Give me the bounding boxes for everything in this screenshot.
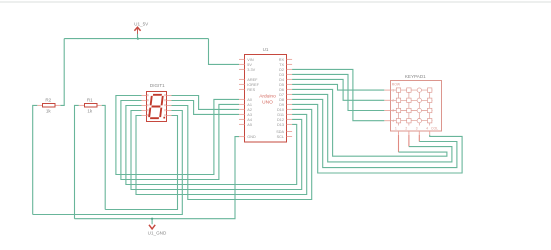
- wire DIGIT1 RC to D10: [172, 106, 312, 200]
- svg-text:A1: A1: [247, 103, 252, 107]
- wire COL2 to D7: [292, 94, 452, 161]
- keypad KEYPAD1: [384, 81, 441, 135]
- wire R1 right down: [102, 105, 106, 209]
- wire COL3 to D8: [292, 99, 457, 167]
- wire DIGIT1 L3 to D13: [126, 106, 297, 185]
- wire DIGIT1 RB to A3: [172, 101, 240, 115]
- resistor R1: [79, 104, 102, 108]
- wire 5V rail: [64, 38, 208, 40]
- wire D3 to keypad ROW3: [292, 74, 384, 110]
- wire COL4 to D9: [292, 104, 462, 173]
- ground symbol U1_GND: [149, 225, 155, 229]
- wire D5 to keypad ROW1: [292, 84, 384, 90]
- svg-text:1: 1: [395, 126, 397, 130]
- svg-text:U1_GND: U1_GND: [148, 231, 167, 236]
- svg-text:UNO: UNO: [262, 99, 273, 105]
- svg-text:D5: D5: [279, 83, 284, 87]
- svg-text:Arduino: Arduino: [259, 94, 276, 100]
- svg-text:D9: D9: [279, 103, 284, 107]
- svg-text:R1: R1: [87, 97, 93, 102]
- svg-text:U1_5V: U1_5V: [134, 22, 149, 27]
- svg-text:COL: COL: [431, 127, 438, 131]
- svg-text:GND: GND: [247, 135, 256, 139]
- svg-text:D13: D13: [277, 123, 284, 127]
- svg-text:3: 3: [416, 126, 418, 130]
- wire GND symbol lead: [151, 219, 153, 225]
- svg-text:D7: D7: [279, 93, 284, 97]
- svg-text:RES: RES: [247, 88, 255, 92]
- wire DIGIT1 RE to R1 rail: [105, 116, 177, 210]
- wire R2 left down: [33, 105, 38, 214]
- wire 5V arrow drop: [137, 34, 139, 39]
- svg-text:A3: A3: [247, 113, 252, 117]
- wire D4 to keypad ROW2: [292, 79, 384, 100]
- wire DIGIT1 L1 to A0: [116, 96, 239, 175]
- svg-text:D10: D10: [277, 108, 284, 112]
- svg-text:4: 4: [426, 126, 428, 130]
- resistor R2: [37, 104, 60, 108]
- svg-text:D8: D8: [279, 98, 284, 102]
- supply symbol U1_5V: [134, 27, 140, 34]
- svg-text:ROW: ROW: [392, 83, 401, 87]
- svg-text:D4: D4: [279, 78, 284, 82]
- svg-text:SDA: SDA: [276, 130, 284, 134]
- svg-text:DIGIT1: DIGIT1: [150, 83, 165, 88]
- wire DIGIT1 RA to A2: [172, 96, 240, 110]
- svg-text:IOREF: IOREF: [247, 83, 259, 87]
- wire DIGIT1 L4 to D12: [131, 111, 302, 190]
- svg-text:R2: R2: [45, 97, 51, 102]
- 7-segment display DIGIT1: [142, 92, 172, 122]
- wire keypad COL3 red drop: [418, 135, 420, 142]
- svg-text:A5: A5: [247, 123, 252, 127]
- wire keypad COL1 red drop: [398, 135, 400, 152]
- svg-text:D6: D6: [279, 88, 284, 92]
- svg-text:U1: U1: [263, 47, 269, 52]
- wire D2 to keypad ROW4: [292, 69, 384, 120]
- svg-text:RX: RX: [279, 58, 285, 62]
- svg-text:KEYPAD1: KEYPAD1: [405, 74, 426, 79]
- svg-text:5V: 5V: [247, 63, 252, 67]
- svg-text:1k: 1k: [46, 108, 52, 113]
- svg-text:VIN: VIN: [247, 58, 254, 62]
- svg-text:D2: D2: [279, 68, 284, 72]
- svg-text:TX: TX: [279, 63, 284, 67]
- svg-text:A0: A0: [247, 98, 252, 102]
- svg-text:A2: A2: [247, 108, 252, 112]
- wire GND: U1 GND pin to rail: [75, 137, 240, 219]
- svg-text:2: 2: [405, 126, 407, 130]
- svg-text:SCL: SCL: [277, 135, 284, 139]
- svg-text:1k: 1k: [87, 108, 93, 113]
- svg-text:D11: D11: [277, 113, 284, 117]
- svg-text:A4: A4: [247, 118, 252, 122]
- wire DIGIT1 L5 to D11: [136, 114, 307, 194]
- junction GND rail: [151, 218, 153, 220]
- wire 5V rail to R2 right: [60, 39, 64, 106]
- wire R1 left down to GND rail: [75, 105, 79, 218]
- svg-text:3.3V: 3.3V: [247, 68, 255, 72]
- wire DIGIT1 L2 to A1: [121, 101, 239, 180]
- wire 5V rail to U1 5V pin: [209, 39, 240, 65]
- svg-text:D12: D12: [277, 118, 284, 122]
- wire DIGIT1 RD to R2 rail: [33, 111, 183, 215]
- svg-text:AREF: AREF: [247, 78, 258, 82]
- Arduino UNO U1: [239, 55, 292, 143]
- junction 5V rail: [137, 38, 139, 40]
- wire COL1 to D6: [292, 89, 447, 156]
- svg-text:D3: D3: [279, 73, 284, 77]
- wire keypad COL2 red drop: [408, 135, 410, 147]
